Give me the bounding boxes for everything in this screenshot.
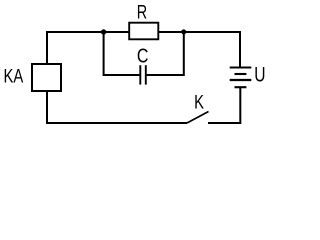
svg-text:C: C xyxy=(137,44,149,67)
svg-text:K: K xyxy=(194,91,204,114)
svg-text:R: R xyxy=(137,0,147,23)
svg-text:KA: KA xyxy=(4,64,24,87)
svg-text:U: U xyxy=(254,62,265,86)
